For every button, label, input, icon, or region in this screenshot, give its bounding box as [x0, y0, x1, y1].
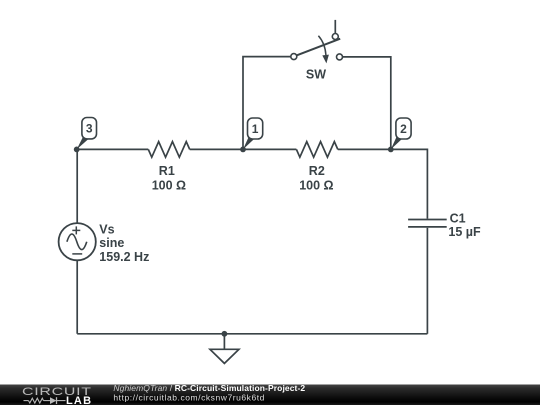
- svg-text:159.2 Hz: 159.2 Hz: [99, 250, 149, 264]
- capacitor C1: [408, 220, 447, 227]
- svg-text:R2: R2: [309, 164, 325, 178]
- voltage source Vs: [59, 223, 96, 260]
- wire Vs minus terminal to bottom rail: [76, 260, 78, 334]
- resistor R2: [296, 142, 337, 158]
- wire R1 to node 1: [190, 148, 243, 150]
- svg-text:http://circuitlab.com/cksnw7ru: http://circuitlab.com/cksnw7ru6k6td: [113, 392, 265, 402]
- svg-text:100 Ω: 100 Ω: [299, 179, 333, 193]
- node 1 junction dot: [240, 147, 246, 153]
- svg-text:sine: sine: [99, 236, 124, 250]
- wire switch right terminal to node 2: [343, 57, 391, 149]
- wire node 3 to R1: [77, 148, 149, 150]
- ground junction dot: [222, 331, 228, 337]
- svg-text:3: 3: [86, 122, 93, 136]
- node 2 junction dot: [388, 147, 394, 153]
- svg-text:15 µF: 15 µF: [448, 225, 481, 239]
- resistor R1: [148, 142, 189, 158]
- wire node 3 down to Vs plus terminal: [76, 149, 78, 223]
- wire node 2 to capacitor C1 top: [391, 149, 428, 218]
- switch SW: [291, 20, 343, 64]
- footer bar: [0, 385, 540, 405]
- node 2 label bubble: [391, 118, 411, 149]
- svg-text:LAB: LAB: [66, 395, 92, 405]
- wire capacitor C1 bottom to bottom rail: [426, 228, 428, 334]
- node 3 label bubble: [77, 118, 97, 150]
- wire node 1 to R2: [243, 148, 296, 150]
- node 1 label bubble: [243, 118, 263, 149]
- CircuitLab logo schematic line with resistor and diode: [24, 397, 66, 404]
- ground: [210, 334, 239, 364]
- svg-text:Vs: Vs: [99, 222, 114, 236]
- bottom rail wire: [77, 333, 427, 335]
- svg-text:2: 2: [400, 122, 407, 136]
- svg-text:SW: SW: [306, 68, 326, 82]
- wire R2 to node 2: [338, 148, 391, 150]
- svg-text:C1: C1: [450, 211, 466, 225]
- svg-text:100 Ω: 100 Ω: [152, 179, 186, 193]
- wire node 1 up to switch left terminal: [243, 57, 291, 150]
- svg-text:1: 1: [252, 122, 259, 136]
- node 3 junction dot: [74, 147, 80, 153]
- svg-text:R1: R1: [159, 164, 175, 178]
